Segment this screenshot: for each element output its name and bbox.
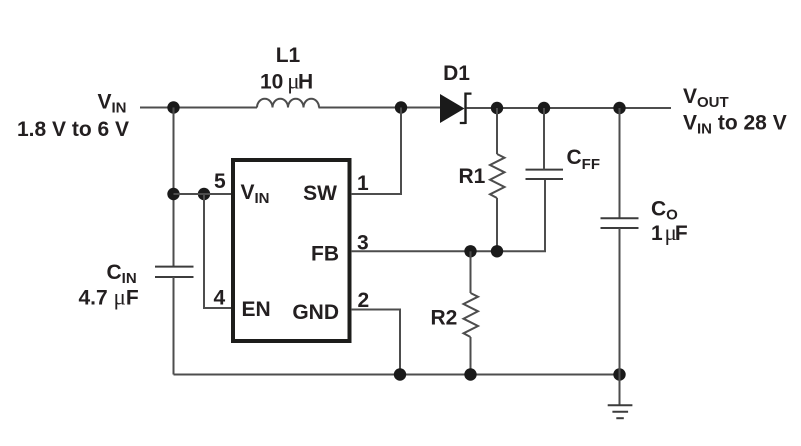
svg-text:L1: L1 bbox=[276, 44, 301, 67]
wire: D1 cathode to VOUT rail bbox=[467, 107, 672, 109]
capacitor CO bbox=[601, 218, 639, 228]
capacitor CIN bbox=[155, 267, 194, 277]
wire: GND pin 2 to ground rail bbox=[351, 310, 400, 375]
R1 reference label bbox=[459, 165, 486, 188]
wire: CO bottom lead to rail bbox=[619, 228, 621, 375]
ground bbox=[608, 405, 633, 418]
svg-text:D1: D1 bbox=[443, 62, 470, 85]
node: GND pin junction on rail bbox=[394, 368, 406, 380]
node: EN branch junction bbox=[198, 188, 210, 200]
svg-text:5: 5 bbox=[214, 170, 226, 193]
pin number 4 bbox=[214, 287, 226, 310]
op-amp U1 (regulator IC body) bbox=[233, 160, 350, 341]
CO reference label bbox=[651, 198, 678, 224]
node: ground symbol junction on rail bbox=[613, 368, 625, 380]
svg-text:1: 1 bbox=[357, 172, 369, 195]
wire: VIN input to left junction bbox=[140, 107, 257, 109]
CFF reference label bbox=[567, 146, 601, 173]
wire: R1 top lead bbox=[496, 108, 498, 154]
svg-text:VIN to 28 V: VIN to 28 V bbox=[683, 112, 787, 138]
L1 value label 10 uH bbox=[260, 69, 313, 94]
wire: VIN pin 5 horizontal bbox=[174, 193, 234, 195]
resistor R2 bbox=[464, 293, 479, 337]
R2 reference label bbox=[431, 307, 458, 330]
svg-text:VIN: VIN bbox=[241, 181, 270, 207]
pin number 3 bbox=[357, 231, 369, 254]
node: FB node dot (R1 bottom) bbox=[491, 245, 503, 257]
svg-text:GND: GND bbox=[292, 301, 339, 324]
svg-text:CFF: CFF bbox=[567, 146, 601, 173]
wire: L1 to SW junction bbox=[319, 107, 441, 109]
U1 pin label FB bbox=[311, 243, 339, 266]
svg-text:EN: EN bbox=[242, 298, 271, 321]
VIN terminal label bbox=[98, 91, 127, 117]
pin number 2 bbox=[358, 289, 370, 312]
svg-text:R1: R1 bbox=[459, 165, 486, 188]
node: CFF top junction bbox=[538, 102, 550, 114]
CFF top lead bbox=[543, 108, 545, 170]
svg-text:CIN: CIN bbox=[107, 261, 137, 287]
L1 reference label bbox=[276, 44, 301, 67]
CIN reference label bbox=[107, 261, 137, 287]
U1 pin label SW bbox=[303, 182, 337, 205]
wire: CO top lead bbox=[619, 108, 621, 218]
svg-text:VOUT: VOUT bbox=[683, 85, 729, 111]
wire: CIN bottom to ground rail bbox=[173, 277, 175, 375]
wire: EN branch vertical and horizontal to pin 4 bbox=[204, 194, 233, 308]
wire: bottom ground rail bbox=[174, 374, 620, 376]
svg-text:VIN: VIN bbox=[98, 91, 127, 117]
CIN value label 4.7 uF bbox=[79, 285, 139, 310]
U1 pin label GND bbox=[292, 301, 339, 324]
wire: R1 bottom lead to FB node bbox=[496, 198, 498, 251]
svg-text:4.7 μF: 4.7 μF bbox=[79, 285, 139, 310]
svg-text:4: 4 bbox=[214, 287, 226, 310]
node: R2 bottom junction on rail bbox=[464, 368, 476, 380]
wire: left vertical from VIN junction to CIN top bbox=[173, 108, 175, 267]
capacitor CFF bbox=[526, 170, 564, 179]
svg-text:SW: SW bbox=[303, 182, 337, 205]
diode D1 (Schottky) bbox=[440, 93, 472, 125]
node: FB node dot (R2 top) bbox=[464, 245, 476, 257]
wire: FB pin 3 to divider node and CFF bottom bbox=[351, 179, 545, 251]
node: CO top junction bbox=[613, 102, 625, 114]
svg-text:1 μF: 1 μF bbox=[651, 220, 688, 245]
wire: R2 top lead bbox=[470, 251, 472, 293]
D1 reference label bbox=[443, 62, 470, 85]
svg-text:1.8 V to 6 V: 1.8 V to 6 V bbox=[17, 118, 129, 141]
wire: SW pin 1 to top rail bbox=[351, 108, 401, 195]
svg-text:10 μH: 10 μH bbox=[260, 69, 313, 94]
CO value label 1 uF bbox=[651, 220, 688, 245]
pin number 5 bbox=[214, 170, 226, 193]
VOUT terminal label bbox=[683, 85, 729, 111]
node: VIN pin branch junction bbox=[167, 188, 179, 200]
VOUT range label VIN to 28 V bbox=[683, 112, 787, 138]
U1 pin label VIN bbox=[241, 181, 270, 207]
svg-text:2: 2 bbox=[358, 289, 370, 312]
U1 pin label EN bbox=[242, 298, 271, 321]
inductor L1 bbox=[257, 99, 319, 108]
svg-text:FB: FB bbox=[311, 243, 339, 266]
VIN range label 1.8 V to 6 V bbox=[17, 118, 129, 141]
svg-text:3: 3 bbox=[357, 231, 369, 254]
pin number 1 bbox=[357, 172, 369, 195]
wire: rail to ground symbol bbox=[619, 375, 621, 406]
svg-text:R2: R2 bbox=[431, 307, 458, 330]
node: SW junction on top rail bbox=[395, 101, 407, 113]
node: VIN junction (top left) bbox=[167, 101, 179, 113]
node: R1 top junction bbox=[491, 102, 503, 114]
wire: R2 bottom lead to ground rail bbox=[470, 337, 472, 375]
resistor R1 bbox=[490, 154, 505, 198]
